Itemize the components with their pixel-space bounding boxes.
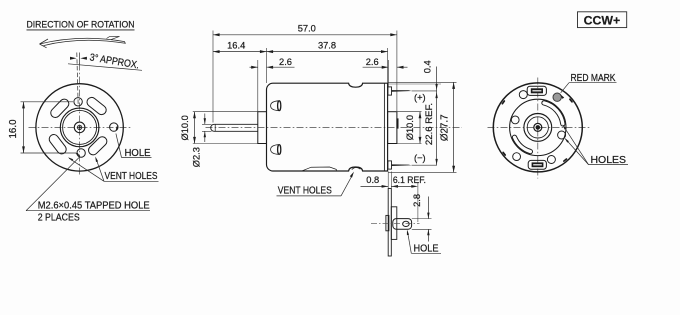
label VENT HOLES underline xyxy=(104,180,159,182)
detail: terminal hole xyxy=(403,221,410,226)
dim 37.8 line xyxy=(267,51,388,53)
dim 37.8 ext right xyxy=(387,48,389,83)
center view: rear shaft end xyxy=(396,118,398,128)
dim O10L ext top xyxy=(193,111,258,113)
dim 2.6L line+arrows xyxy=(250,66,258,68)
right view: boss ring inner xyxy=(527,117,548,138)
dim O10L line xyxy=(194,112,196,144)
label HOLE (detail) leader xyxy=(408,232,412,254)
svg-text:HOLE: HOLE xyxy=(414,244,439,255)
right view: rim crimp tab lower-right xyxy=(563,158,568,163)
dim 0.4 top line xyxy=(389,81,457,83)
svg-text:2.6: 2.6 xyxy=(366,57,379,67)
svg-text:Ø27.7: Ø27.7 xyxy=(440,114,451,141)
center view: bottom notch inner line xyxy=(352,167,361,169)
left view: vent slot top-right xyxy=(85,96,108,117)
label M2.6 leader xyxy=(26,157,80,211)
right view: shaft center xyxy=(536,126,540,130)
label M2.6 underline xyxy=(26,210,150,212)
label VENT HOLES leader1 xyxy=(69,158,104,181)
dim O27.7 arrows xyxy=(452,82,455,89)
right view: hole top-left xyxy=(519,91,527,99)
dim 2.6R ext left xyxy=(387,60,389,87)
dim 57.0 arrows xyxy=(213,33,220,36)
dim O10R line xyxy=(419,112,421,144)
3deg arrow right xyxy=(80,57,87,60)
dim O10L arrows xyxy=(193,112,196,119)
terminal minus tab xyxy=(392,164,412,166)
dim 22.6 arrow down xyxy=(435,159,437,165)
label HOLES leader2 xyxy=(566,139,589,165)
right view: boss ring outer xyxy=(524,114,552,142)
dim 16.4 line xyxy=(213,51,267,53)
label RED MARK leader xyxy=(561,83,569,93)
dim 0.4 arrow down xyxy=(435,84,437,90)
center view: end cap inner edge line xyxy=(383,83,385,171)
dim 16.4 arrows xyxy=(213,50,220,53)
svg-text:57.0: 57.0 xyxy=(298,24,316,34)
left view: vent slot bottom-right xyxy=(87,135,109,157)
svg-text:6.1 REF.: 6.1 REF. xyxy=(393,175,426,185)
svg-text:0.8: 0.8 xyxy=(366,175,379,185)
right view: rim crimp tab lower-left xyxy=(502,151,506,156)
detail: centerline xyxy=(371,223,420,225)
svg-text:22.6 REF.: 22.6 REF. xyxy=(424,103,435,145)
dim 22.6/0.4 vertical line xyxy=(436,67,438,166)
svg-text:37.8: 37.8 xyxy=(318,40,336,50)
right view: hole right-mid xyxy=(558,131,566,139)
center view: motor can body xyxy=(267,83,388,171)
svg-text:VENT HOLES: VENT HOLES xyxy=(105,171,158,182)
svg-text:DIRECTION OF ROTATION: DIRECTION OF ROTATION xyxy=(27,19,135,30)
dim 2.8 ext bottom xyxy=(412,228,432,230)
left view: shaft center hole xyxy=(77,125,81,129)
svg-text:Ø2.3: Ø2.3 xyxy=(192,147,202,167)
left view: tapped hole top xyxy=(74,98,82,106)
dim 16.0 arrow up xyxy=(22,102,25,109)
svg-text:(−): (−) xyxy=(414,153,426,163)
svg-text:2.6: 2.6 xyxy=(279,57,292,67)
right view: hole bottom-right xyxy=(547,156,555,164)
svg-text:16.4: 16.4 xyxy=(227,40,245,50)
dim O2.3 ext bottom xyxy=(202,130,212,132)
svg-text:VENT HOLES: VENT HOLES xyxy=(278,186,332,197)
3deg arrow left xyxy=(70,57,77,60)
left view: tapped hole bottom xyxy=(77,149,85,157)
terminal plus tab xyxy=(392,90,412,92)
dim O10L ext bottom xyxy=(193,143,258,145)
svg-text:0.4: 0.4 xyxy=(423,60,433,73)
svg-text:Ø10.0: Ø10.0 xyxy=(180,115,190,140)
right view: shaft ring xyxy=(534,123,542,131)
3deg tilted line xyxy=(77,53,78,107)
label HOLE (detail) underline xyxy=(411,252,441,254)
left view: pilot hole right xyxy=(110,123,118,131)
left view: shaft circle xyxy=(74,122,85,133)
dim 2.8 ext top xyxy=(412,218,432,220)
terminal plus base xyxy=(388,87,392,95)
terminal minus extension xyxy=(412,164,437,166)
dim O10R arrows xyxy=(419,112,422,119)
left view: motor outer circle xyxy=(36,84,123,171)
svg-text:2.8: 2.8 xyxy=(412,194,422,207)
dim 22.6 arrow up xyxy=(435,92,437,98)
label M2.6 leader arrow xyxy=(76,152,81,157)
CCW+ box xyxy=(578,12,627,28)
right view: hole left-mid xyxy=(511,116,519,124)
right view: arc slot top-right xyxy=(542,101,565,126)
curved rotation arrow xyxy=(40,38,126,45)
right view: horizontal centerline xyxy=(488,126,590,128)
left view: vent slot top-left xyxy=(49,97,71,119)
left view: vertical centerline xyxy=(79,64,81,177)
right view: rim crimp tab upper-left xyxy=(501,100,505,105)
3deg leader line xyxy=(68,64,142,71)
dim 57.0 line xyxy=(213,34,397,36)
label HOLES underline xyxy=(589,164,629,166)
dim O2.3 arrows xyxy=(204,114,206,125)
dim 0.8/6.1 line xyxy=(361,185,389,187)
dim 16.0 arrow down xyxy=(22,146,25,153)
dim 57.0 ext right xyxy=(396,31,398,112)
dim O2.3 ext top xyxy=(202,123,212,125)
left view: horizontal centerline xyxy=(29,126,132,128)
dim 37.8 arrows xyxy=(267,50,274,53)
right view: outer circle xyxy=(493,83,582,172)
center view: rear bearing boss xyxy=(388,112,397,144)
right view: brush cap top xyxy=(527,86,546,95)
left view: vent slot bottom-left xyxy=(47,133,68,156)
label RED MARK underline xyxy=(569,82,617,84)
label VENT HOLES leader2 xyxy=(96,158,104,181)
center view: crimp tab top xyxy=(271,101,280,111)
center view: front bearing boss xyxy=(258,112,267,144)
underline DIRECTION OF ROTATION xyxy=(27,29,135,31)
3deg reference line vertical xyxy=(79,53,81,65)
svg-text:M2.6×0.45 TAPPED HOLE: M2.6×0.45 TAPPED HOLE xyxy=(38,200,150,211)
detail: plate ext up xyxy=(387,172,389,189)
dim O10R ext top xyxy=(397,111,422,113)
center view: crimp tab bottom xyxy=(271,145,280,155)
dim 2.8 arrows xyxy=(427,197,429,219)
dim 37.8 ext junction xyxy=(266,48,268,83)
dim 16.0 extension bottom xyxy=(21,152,77,154)
svg-text:2 PLACES: 2 PLACES xyxy=(38,212,80,223)
right view: brush cap bottom xyxy=(528,160,546,169)
terminal plus extension xyxy=(412,90,437,92)
label HOLE leader arrow xyxy=(115,126,118,131)
svg-text:HOLE: HOLE xyxy=(125,148,151,159)
svg-text:16.0: 16.0 xyxy=(8,119,19,139)
dim 16.0 extension top xyxy=(21,101,74,103)
dim 6.1 ext right xyxy=(417,183,419,222)
label HOLE underline xyxy=(122,157,152,159)
dim O10R ext bottom xyxy=(397,143,422,145)
detail: bracket block xyxy=(391,207,397,240)
dim 57.0 ext left xyxy=(212,31,214,123)
label VENT HOLES (side) leader xyxy=(341,175,352,196)
svg-text:HOLES: HOLES xyxy=(591,155,627,166)
can top extension line xyxy=(388,83,441,85)
right view: end cap circle xyxy=(510,99,566,155)
left view: bearing boss outer ring xyxy=(60,108,99,147)
dim 2.6R line+arrows xyxy=(363,66,389,68)
terminal minus base xyxy=(388,161,392,169)
svg-text:Ø10.0: Ø10.0 xyxy=(405,115,415,140)
dim O27.7 line xyxy=(453,82,455,172)
svg-text:(+): (+) xyxy=(414,93,426,103)
center view: bottom vent slot sliver xyxy=(302,167,336,171)
left view: bearing boss inner ring xyxy=(63,110,97,144)
center view: shaft xyxy=(211,124,258,131)
dim O27.7 ext bottom xyxy=(389,171,457,173)
label HOLE leader xyxy=(116,134,122,158)
right view: rim crimp tab upper-right xyxy=(569,98,573,103)
right view: vertical centerline xyxy=(537,78,539,179)
right view: red mark xyxy=(553,93,561,101)
center view: axis centerline xyxy=(206,127,463,129)
svg-text:RED MARK: RED MARK xyxy=(571,73,616,84)
right view: hole bottom-left xyxy=(513,153,521,161)
label VENT HOLES (side) underline xyxy=(277,195,342,197)
label HOLES leader1 xyxy=(563,126,588,165)
right view: arc slot bottom-left xyxy=(512,135,532,154)
dim 2.6L ext boss xyxy=(257,60,259,112)
detail: terminal lug xyxy=(393,219,412,230)
dim 16.0 line xyxy=(23,102,25,153)
svg-text:CCW+: CCW+ xyxy=(584,14,621,28)
detail: plate edge xyxy=(388,189,391,257)
detail: bracket tab left xyxy=(386,215,389,230)
